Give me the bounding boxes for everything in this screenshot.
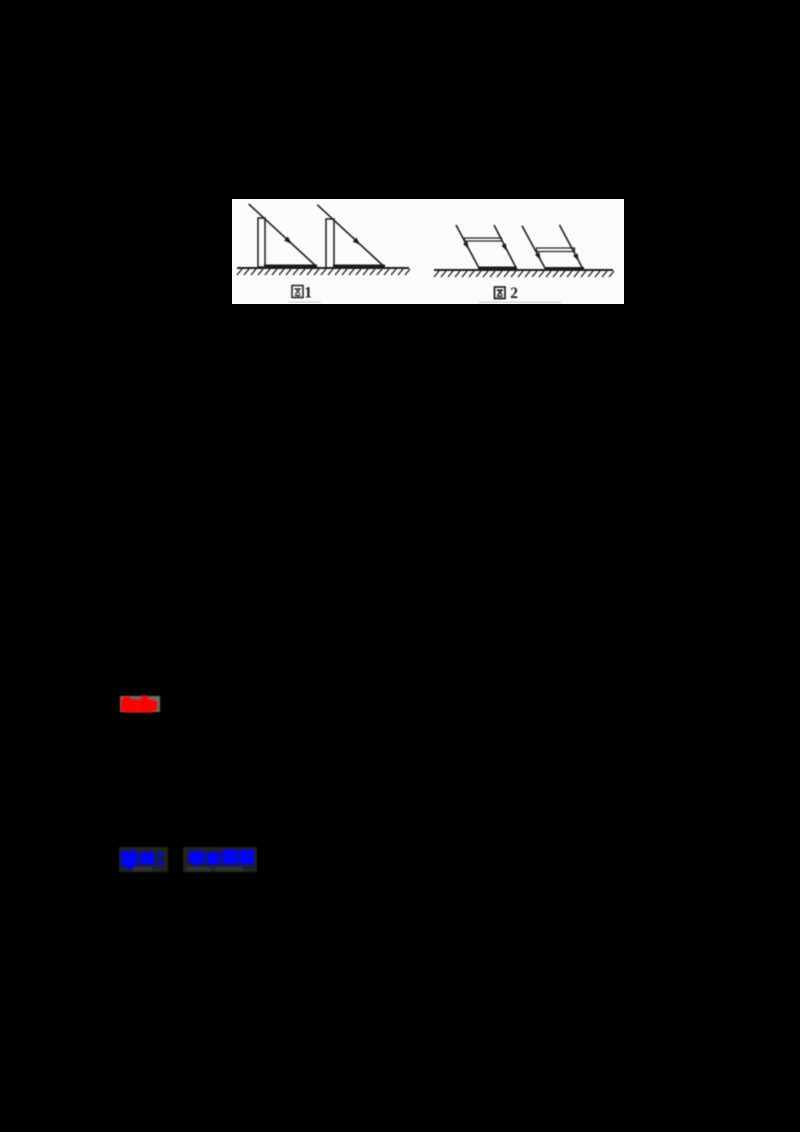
svg-text:2: 2 [510, 285, 518, 302]
svg-text:1: 1 [304, 285, 312, 302]
